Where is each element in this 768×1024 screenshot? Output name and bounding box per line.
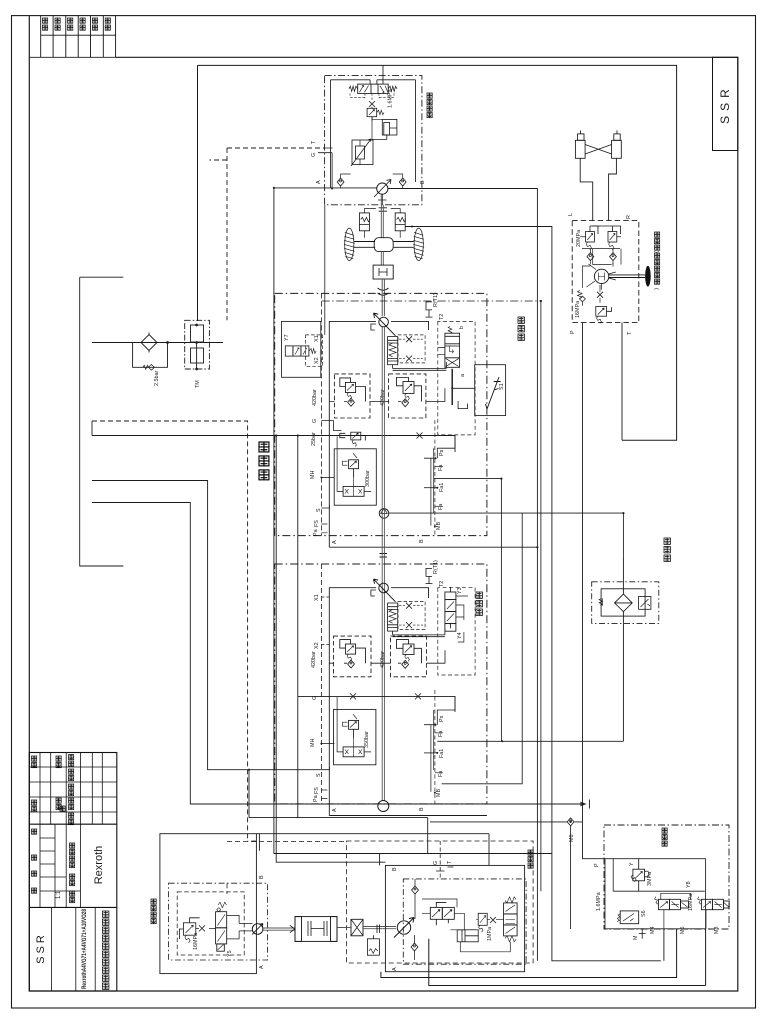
label 三联泵 — [259, 442, 269, 480]
valve V1 directional 6/2 — [358, 84, 389, 94]
svg-text:25bar: 25bar — [311, 432, 317, 446]
coupling X box — [351, 919, 363, 936]
throttle X on G line right — [415, 693, 421, 699]
wire brake pilot to X1 — [324, 205, 326, 335]
brake block dash-dot box — [169, 883, 268, 960]
node junctions — [196, 187, 625, 823]
wire dashed right of brake box — [227, 841, 256, 894]
wire W1 branch down — [249, 770, 428, 854]
wire main loop top — [198, 65, 706, 985]
wire Fa branch down — [442, 513, 523, 784]
label 过滤器 — [664, 538, 670, 561]
relief 25bar — [340, 432, 366, 446]
svg-text:Y3: Y3 — [457, 587, 463, 594]
svg-text:G: G — [311, 153, 317, 157]
wire Y5 to motor — [196, 915, 253, 939]
control feedback rod — [451, 369, 453, 405]
bypass switch right — [639, 596, 651, 609]
cylinder cross link — [585, 145, 612, 155]
relief block right 420bar C — [391, 636, 427, 677]
shuttle flushing valve — [337, 436, 371, 496]
port bracket left of pump — [371, 324, 376, 330]
check valve top — [412, 886, 419, 894]
company name — [103, 911, 109, 989]
check valve right — [610, 253, 617, 261]
label 振动泵 — [476, 592, 482, 615]
steering wheel — [645, 266, 651, 287]
svg-text:FS: FS — [314, 520, 320, 527]
swash actuator zigzag — [388, 337, 447, 371]
svg-text:MH: MH — [310, 739, 316, 747]
svg-text:Fa: Fa — [438, 771, 444, 777]
switch S1 box — [475, 365, 506, 416]
shaft coupling to pump — [337, 927, 396, 929]
wire G riser to vib pump — [297, 436, 299, 818]
svg-text:B: B — [259, 875, 265, 879]
svg-text:Pa: Pa — [313, 795, 319, 802]
svg-text:MB: MB — [436, 522, 442, 530]
wire dashed TM to motor T — [227, 147, 325, 149]
svg-text:T2: T2 — [439, 314, 445, 320]
wire pump C bottom — [329, 815, 487, 817]
wire control to S1 — [452, 387, 475, 389]
shaft motor to gearbox — [263, 928, 295, 930]
wire M6 check — [567, 818, 574, 826]
svg-text:): ) — [654, 288, 660, 290]
throttle X pilot — [490, 917, 496, 923]
svg-text:T2: T2 — [439, 581, 445, 587]
differential — [374, 238, 393, 252]
relief 16MPa — [596, 307, 612, 324]
bypass spring check left — [599, 598, 602, 606]
spring left of V1 — [349, 86, 358, 91]
throttle X brake — [199, 925, 205, 931]
valve Y7 box — [282, 321, 321, 377]
wire pilot cross — [613, 859, 705, 892]
svg-text:T: T — [447, 860, 453, 864]
wire X1 riser — [540, 301, 542, 891]
throttle X lower — [406, 356, 412, 362]
shaft end circle — [378, 801, 389, 812]
svg-text:FS: FS — [314, 787, 320, 794]
travel pump box dash-dot — [275, 293, 487, 535]
coupling between pumps — [380, 554, 388, 558]
wire Ps step — [424, 436, 455, 459]
wire drain via diamond — [430, 822, 582, 929]
wire S1 junction riser — [434, 478, 502, 480]
wire G into block — [321, 420, 341, 430]
svg-text:3MPa: 3MPa — [647, 872, 653, 886]
svg-text:A: A — [332, 808, 338, 812]
svg-text:16MPa: 16MPa — [575, 301, 581, 318]
svg-text:Ps: Ps — [439, 715, 445, 722]
pilot throttle dashed box — [398, 335, 425, 363]
wire W2 drain with arrow — [92, 503, 585, 806]
relief valve left 20MPa — [586, 226, 598, 250]
port R T1 bracket C — [426, 568, 433, 583]
wire pump bottom to B-line — [329, 546, 537, 548]
node junction — [167, 342, 169, 344]
wire long G line — [92, 421, 455, 452]
svg-text:MH: MH — [310, 471, 316, 479]
svg-text:B: B — [419, 807, 425, 811]
svg-text:A: A — [259, 965, 265, 969]
svg-text:Fa1: Fa1 — [439, 483, 445, 492]
shaft gearbox to pumps — [382, 279, 384, 316]
brake block dashed box — [177, 892, 244, 955]
shuttle flushing valve C — [337, 697, 371, 757]
motor M1 circle — [374, 180, 391, 198]
check diamond right block — [402, 399, 409, 407]
spring right of V1 — [388, 86, 397, 91]
svg-text:Fa1: Fa1 — [439, 749, 445, 758]
valve Y9 — [698, 897, 730, 910]
pressure switch S6 — [617, 911, 639, 924]
wire relief cross line C — [329, 650, 445, 663]
svg-text:Y5: Y5 — [227, 950, 233, 957]
wire dashed TM to travel pump — [92, 148, 248, 841]
svg-text:Y8: Y8 — [686, 881, 692, 888]
check valve on B — [399, 178, 406, 186]
arrow on shaft — [290, 925, 295, 932]
wire Y8 feeds — [661, 893, 706, 928]
svg-text:420bar: 420bar — [312, 389, 318, 406]
svg-text:SSR: SSR — [718, 84, 732, 124]
throttle X upper C — [406, 603, 412, 609]
svg-text:1MPa: 1MPa — [487, 927, 493, 941]
wire left stub upper — [80, 277, 124, 566]
pressure reducing valve — [430, 902, 454, 925]
svg-text:20MPa: 20MPa — [576, 230, 582, 247]
relief block left 420bar C — [334, 636, 372, 677]
svg-text:R(T1): R(T1) — [433, 560, 439, 574]
wheel right — [413, 228, 424, 260]
relief valve 1.6MPa brake — [367, 107, 384, 121]
throttle X upper — [406, 336, 412, 342]
check valve bottom — [411, 943, 418, 951]
charge block solid box — [385, 865, 524, 971]
svg-text:P: P — [570, 330, 576, 334]
wire pilot internals — [422, 899, 510, 952]
brake release cylinder — [382, 119, 397, 139]
wire check links — [414, 879, 417, 960]
svg-text:Pa: Pa — [313, 529, 319, 536]
wire brake line to pilot — [405, 227, 664, 961]
wire check connections — [590, 249, 613, 265]
control dashed enclosure — [438, 321, 475, 435]
TM manifold box (dash-dot) — [185, 320, 223, 370]
wire throttle dashes C — [399, 606, 423, 625]
wire W1 to vib pump S — [92, 481, 321, 770]
shaft diff to gearbox — [381, 252, 383, 266]
steering unit circle — [587, 264, 616, 290]
pilot supply solid box — [605, 859, 706, 929]
revision table texts — [43, 18, 111, 30]
block 350bar — [334, 709, 376, 764]
filter F2 diamond — [615, 594, 633, 612]
wire A-line riser — [274, 188, 552, 854]
motor M2 circle — [252, 924, 263, 935]
cylinder small — [457, 930, 478, 942]
pump boundary solid — [329, 321, 428, 547]
svg-text:B: B — [420, 180, 426, 184]
wire cross links reliefs — [580, 226, 621, 249]
check valve on A — [337, 178, 344, 186]
wire throttle dashes — [399, 339, 423, 358]
steering cylinder left — [575, 130, 585, 158]
svg-text:Y: Y — [629, 862, 635, 866]
brake cylinder right — [391, 209, 406, 238]
label 先导块 — [662, 828, 667, 846]
switch S1 — [486, 377, 501, 409]
shaft through pumps — [382, 327, 384, 801]
svg-text:X1: X1 — [314, 594, 320, 601]
relief valve 16MPa brake — [179, 918, 199, 943]
svg-text:M6: M6 — [680, 927, 686, 935]
brake block outer box — [160, 834, 257, 974]
svg-text:A: A — [316, 180, 322, 184]
label 行走泵 — [518, 317, 524, 340]
阶段标记 重量 比例 — [70, 843, 75, 848]
valve Y8 — [655, 897, 689, 910]
relief bypass 2.5bar — [143, 365, 149, 369]
filter F1 — [141, 333, 157, 353]
wire G line C — [298, 696, 455, 712]
gearbox H box — [373, 265, 393, 279]
wire relief cross line — [329, 388, 445, 401]
svg-text:X2: X2 — [314, 642, 320, 649]
relief valve right 20MPa — [608, 226, 620, 250]
pilot supply dash-dot box — [604, 825, 729, 929]
svg-text:R(T1): R(T1) — [433, 293, 439, 307]
svg-text:1.6MPa: 1.6MPa — [388, 89, 394, 108]
valve Y3Y4 dashed enclosure — [438, 588, 475, 675]
svg-text:M4: M4 — [650, 927, 656, 935]
dashed box D — [347, 841, 534, 963]
steering valve block box dashed — [572, 221, 639, 323]
vibration pump box dash-dot — [275, 564, 487, 804]
wire Y34 links — [456, 596, 468, 642]
svg-text:T: T — [311, 140, 317, 144]
ports right side dashed — [434, 420, 436, 536]
svg-text:(: ( — [654, 251, 660, 253]
svg-text:M8: M8 — [714, 927, 720, 935]
relief 1MPa — [478, 913, 487, 932]
check diamond left C — [348, 660, 355, 668]
bottom grid — [51, 907, 95, 991]
wire B line — [388, 189, 537, 961]
throttle X — [369, 101, 375, 107]
pilot dash-dot box E — [403, 879, 526, 964]
relief block right 420bar — [389, 374, 426, 418]
wire return to vib pump — [437, 740, 623, 742]
svg-text:Ps: Ps — [439, 449, 445, 456]
inner dashed boundary C — [320, 564, 322, 804]
throttle X lower C — [406, 622, 412, 628]
svg-text:Rexroth: Rexroth — [93, 846, 105, 885]
svg-text:S6: S6 — [641, 910, 647, 917]
reducing valve 3MPa — [631, 859, 649, 892]
label 轮边马达 — [427, 93, 432, 118]
check valve left — [587, 253, 594, 261]
check diamond right C — [402, 660, 409, 668]
wire filter top feed — [389, 512, 624, 514]
svg-text:Fa: Fa — [438, 504, 444, 510]
ports right side dashed C — [434, 690, 436, 804]
svg-text:Y7: Y7 — [284, 334, 290, 341]
pump P3 circle — [394, 918, 414, 938]
svg-text:16MPa: 16MPa — [193, 933, 199, 950]
wire Fa column — [431, 448, 434, 525]
check diamond left block — [348, 398, 355, 406]
svg-text:b: b — [459, 326, 465, 329]
svg-text:2.5bar: 2.5bar — [154, 371, 160, 386]
throttle X mid — [597, 292, 603, 298]
hook bracket — [458, 401, 467, 409]
universal joint — [378, 288, 389, 295]
svg-text:1:1: 1:1 — [56, 890, 62, 899]
svg-text:1.6MPa: 1.6MPa — [596, 892, 602, 911]
wire dashed bottom link — [227, 841, 347, 843]
return filter box dashed — [592, 582, 659, 624]
svg-text:B: B — [392, 867, 398, 871]
wire filter bypass — [133, 343, 168, 368]
wire secondary riser — [276, 436, 385, 863]
svg-text:G: G — [312, 419, 318, 423]
svg-text:350bar: 350bar — [364, 731, 370, 748]
swash actuator zigzag C — [388, 603, 445, 637]
wire motor drain — [378, 194, 387, 205]
svg-text:a: a — [460, 374, 466, 377]
inner dashed boundary — [320, 293, 322, 535]
svg-text:R: R — [626, 215, 632, 219]
wire brake line — [372, 117, 387, 140]
wire A line — [274, 187, 377, 189]
throttle X on G line left — [350, 693, 356, 699]
svg-text:M6: M6 — [569, 835, 575, 843]
spring check lower left — [578, 290, 586, 305]
svg-text:A: A — [332, 540, 338, 544]
wire aux link — [259, 834, 379, 866]
svg-text:S: S — [316, 508, 322, 512]
filter inner box — [601, 589, 645, 616]
svg-text:RexrothA4VG71+A4VG71+A10VO28: RexrothA4VG71+A4VG71+A10VO28 — [81, 909, 88, 989]
wire S1 branch down — [500, 479, 502, 742]
block 300bar — [334, 449, 376, 505]
upper grid — [40, 753, 102, 825]
svg-text:G: G — [433, 861, 439, 865]
directional valve 3pos vertical — [504, 897, 517, 942]
svg-text:T: T — [627, 331, 633, 335]
svg-text:X1: X1 — [314, 335, 320, 342]
coupling mark below box A — [379, 208, 387, 211]
svg-text:S: S — [316, 773, 322, 777]
svg-text:TM: TM — [195, 380, 201, 388]
共 X 张 第 X 张 — [32, 829, 37, 834]
svg-text:420bar: 420bar — [380, 651, 386, 668]
control cylinder b — [438, 327, 460, 368]
pump P1 circle — [374, 313, 396, 336]
solenoid valve Y7 — [285, 346, 316, 356]
wire T loop — [621, 323, 623, 441]
svg-text:Fa: Fa — [438, 731, 444, 737]
steering wheel shaft — [609, 275, 645, 278]
pilot line dash-dot X1 — [322, 300, 541, 302]
svg-text:SSR: SSR — [35, 932, 47, 964]
svg-text:420bar: 420bar — [380, 389, 386, 406]
svg-text:MB: MB — [436, 789, 442, 797]
valve Y3/Y4 — [445, 587, 456, 631]
axle line — [354, 242, 414, 248]
svg-text:X2: X2 — [314, 357, 320, 364]
brake cylinder left — [359, 209, 376, 238]
port M tick — [639, 928, 646, 939]
valve Y5 directional — [216, 902, 233, 957]
wire suction line — [92, 342, 141, 344]
SSR box top-right — [713, 57, 738, 150]
wire X ports C — [321, 597, 331, 645]
wire G stub — [318, 148, 333, 189]
wire Fa1 step — [424, 487, 437, 489]
revision table top-left — [41, 16, 116, 58]
relief block left 420bar — [334, 374, 370, 418]
shaft tick — [377, 925, 380, 934]
TM inner block — [191, 325, 204, 342]
pump boundary solid C — [329, 588, 428, 816]
wire box top extension — [256, 834, 489, 866]
steering cylinder right — [612, 130, 622, 158]
svg-text:A: A — [392, 967, 398, 971]
port bracket left of pump C — [371, 590, 376, 596]
wire V1 to top loop — [331, 65, 416, 188]
label 先导阀 — [528, 850, 533, 868]
svg-text:B: B — [419, 539, 425, 543]
pilot throttle dashed box C — [398, 601, 425, 629]
gearbox G2 — [295, 917, 337, 942]
port R T1 bracket — [426, 302, 433, 317]
svg-text:Fa: Fa — [438, 465, 444, 471]
pump P2 circle — [374, 579, 396, 602]
svg-text:Y4: Y4 — [457, 632, 463, 639]
valve Y7 X1X2 dashed box — [306, 335, 323, 366]
wire G dashed riser — [439, 841, 441, 879]
wire V1 pilot lines — [350, 93, 394, 100]
middle grid — [40, 824, 80, 907]
charge pump circle — [379, 509, 389, 519]
svg-text:300bar: 300bar — [365, 470, 371, 487]
wire P to pilot block — [583, 323, 606, 859]
throttle on G line — [417, 433, 423, 439]
motor block box (dash-dot) — [325, 76, 422, 205]
wire cylinders to valve block — [580, 158, 616, 220]
wheel left — [344, 228, 355, 260]
spring cylinder accumulator — [367, 935, 379, 955]
svg-text:420bar: 420bar — [311, 651, 317, 668]
svg-text:M: M — [633, 935, 639, 940]
svg-text:L: L — [568, 213, 574, 216]
wire steering internals — [582, 249, 621, 288]
servo control valve — [351, 139, 373, 166]
svg-text:P: P — [594, 863, 600, 867]
title block texts (rotated) — [32, 755, 75, 903]
label 柱塞马达 — [151, 899, 156, 924]
svg-text:S1: S1 — [499, 383, 505, 390]
label 转向器(含组合阀块) — [654, 232, 660, 290]
shaft to axle — [381, 194, 383, 238]
wire filter to TM — [157, 342, 197, 344]
wire filter drop line — [622, 558, 624, 741]
